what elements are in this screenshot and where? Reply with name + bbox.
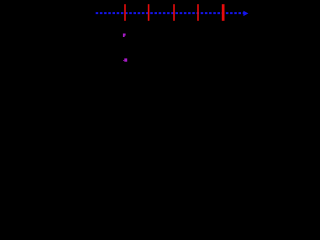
tick T4 [197, 4, 199, 21]
node B dot [122, 60, 125, 61]
wire: dashed blue axis line [96, 12, 244, 14]
node B: purple square marker lower [124, 58, 127, 61]
tick T1 [124, 4, 126, 21]
node A: small purple mark below tick T1 [123, 34, 126, 38]
tick T5 (bold) [222, 4, 225, 21]
arrowhead at right end of axis [243, 11, 248, 16]
tick T3 [173, 4, 175, 21]
tick T2 [148, 4, 150, 21]
